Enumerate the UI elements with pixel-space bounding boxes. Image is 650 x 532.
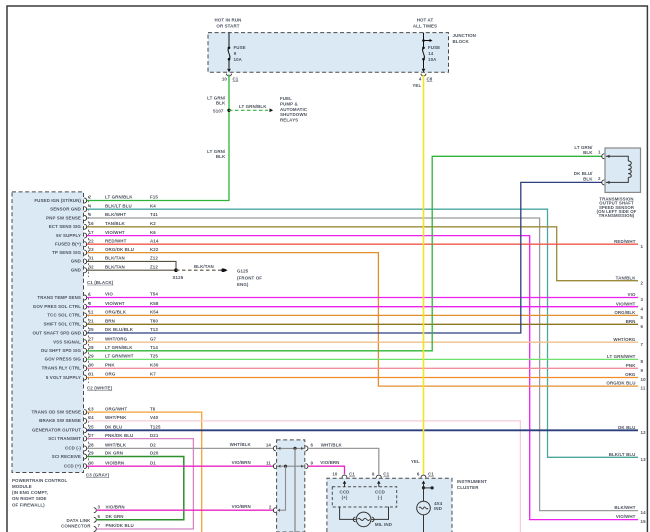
svg-text:10: 10 xyxy=(222,76,228,81)
svg-text:32: 32 xyxy=(89,264,95,269)
svg-text:13: 13 xyxy=(641,457,647,462)
svg-text:BLK/TAN: BLK/TAN xyxy=(194,264,214,269)
svg-text:10: 10 xyxy=(332,472,338,477)
svg-text:PNK/DK BLU: PNK/DK BLU xyxy=(106,523,134,528)
svg-text:BLK/TAN: BLK/TAN xyxy=(105,264,125,269)
svg-text:VIO/WHT: VIO/WHT xyxy=(616,301,636,306)
svg-text:ORG/BLK: ORG/BLK xyxy=(614,310,636,315)
svg-text:SHIFT SOL CTRL: SHIFT SOL CTRL xyxy=(43,322,81,327)
svg-text:25: 25 xyxy=(89,425,95,430)
svg-text:WHT/ORG: WHT/ORG xyxy=(105,336,128,341)
svg-text:14: 14 xyxy=(428,51,434,56)
svg-text:BRN: BRN xyxy=(105,319,115,324)
svg-text:SCI RECEIVE: SCI RECEIVE xyxy=(52,454,81,459)
svg-text:C1: C1 xyxy=(349,472,355,477)
svg-text:VIO/WHT: VIO/WHT xyxy=(105,230,125,235)
svg-text:9: 9 xyxy=(372,472,375,477)
svg-text:BLK/LT BLU: BLK/LT BLU xyxy=(609,452,636,457)
svg-text:PUMP &: PUMP & xyxy=(280,101,298,106)
svg-text:ECT SENS SIG: ECT SENS SIG xyxy=(49,224,82,229)
svg-text:G7: G7 xyxy=(150,336,157,341)
svg-text:6: 6 xyxy=(417,472,420,477)
svg-text:K2: K2 xyxy=(150,221,156,226)
svg-text:BLK/WHT: BLK/WHT xyxy=(614,505,635,510)
svg-text:MODULE: MODULE xyxy=(12,484,32,489)
svg-text:2: 2 xyxy=(641,280,644,285)
svg-text:T25: T25 xyxy=(150,354,158,359)
svg-text:24: 24 xyxy=(89,415,95,420)
svg-text:31: 31 xyxy=(89,256,95,261)
svg-text:6: 6 xyxy=(641,324,644,329)
svg-text:A14: A14 xyxy=(150,238,159,243)
svg-text:6: 6 xyxy=(311,443,314,448)
svg-text:WHT/BLK: WHT/BLK xyxy=(321,443,343,448)
svg-text:DK BLU: DK BLU xyxy=(105,425,122,430)
svg-text:BLK/TAN: BLK/TAN xyxy=(105,256,125,261)
svg-text:PNP SW SENSE: PNP SW SENSE xyxy=(46,215,81,220)
svg-text:(-): (-) xyxy=(378,495,383,500)
svg-text:D2: D2 xyxy=(150,443,156,448)
svg-text:T54: T54 xyxy=(150,292,158,297)
svg-text:FUSED B(+): FUSED B(+) xyxy=(55,242,81,247)
svg-text:TRANS TEMP SENS: TRANS TEMP SENS xyxy=(37,295,81,300)
svg-text:RELAYS: RELAYS xyxy=(280,118,298,123)
svg-text:C1: C1 xyxy=(428,472,434,477)
svg-text:K58: K58 xyxy=(150,301,159,306)
svg-text:21: 21 xyxy=(89,319,95,324)
svg-text:Z12: Z12 xyxy=(150,256,158,261)
svg-text:G125: G125 xyxy=(237,269,249,274)
svg-text:K6: K6 xyxy=(150,230,156,235)
svg-text:OR START: OR START xyxy=(216,23,239,28)
svg-text:ALL TIMES: ALL TIMES xyxy=(413,23,437,28)
svg-text:SCI TRANSMIT: SCI TRANSMIT xyxy=(48,436,81,441)
svg-text:25: 25 xyxy=(89,327,95,332)
svg-text:S107: S107 xyxy=(213,109,224,114)
svg-text:14: 14 xyxy=(266,443,272,448)
svg-text:BLK: BLK xyxy=(583,150,593,155)
svg-text:CLUSTER: CLUSTER xyxy=(457,485,479,490)
svg-text:ORG/DK BLU: ORG/DK BLU xyxy=(105,247,134,252)
svg-text:VIO/BRN: VIO/BRN xyxy=(105,460,124,465)
svg-text:VIO/BRN: VIO/BRN xyxy=(232,504,251,509)
svg-text:T13: T13 xyxy=(150,327,158,332)
svg-text:FUSE: FUSE xyxy=(234,45,246,50)
svg-text:11: 11 xyxy=(641,386,646,391)
svg-text:VIO: VIO xyxy=(628,292,636,297)
svg-text:GOV PRES SOL CTRL: GOV PRES SOL CTRL xyxy=(33,304,81,309)
svg-text:GND: GND xyxy=(71,268,82,273)
svg-text:K22: K22 xyxy=(150,247,159,252)
svg-text:SHUTDOWN: SHUTDOWN xyxy=(280,112,307,117)
svg-text:C3 (GRAY): C3 (GRAY) xyxy=(86,472,110,477)
svg-text:BLK: BLK xyxy=(216,154,226,159)
svg-text:2: 2 xyxy=(598,176,601,181)
svg-text:TCC SOL CTRL: TCC SOL CTRL xyxy=(47,313,81,318)
svg-text:HOT AT: HOT AT xyxy=(417,18,434,23)
svg-text:3: 3 xyxy=(98,504,101,509)
svg-text:T41: T41 xyxy=(150,212,158,217)
svg-text:IND: IND xyxy=(434,506,443,511)
svg-text:T60: T60 xyxy=(150,319,158,324)
svg-text:7: 7 xyxy=(641,342,644,347)
svg-text:27: 27 xyxy=(89,336,95,341)
svg-text:VIO/BRN: VIO/BRN xyxy=(320,460,339,465)
svg-text:VIO/BRN: VIO/BRN xyxy=(232,460,251,465)
svg-text:ON RIGHT SIDE: ON RIGHT SIDE xyxy=(12,496,47,501)
svg-text:ORG/BLK: ORG/BLK xyxy=(105,310,127,315)
svg-text:BLK: BLK xyxy=(216,100,226,105)
svg-text:PNK/DK BLU: PNK/DK BLU xyxy=(105,433,133,438)
svg-text:YEL: YEL xyxy=(411,459,420,464)
svg-text:3: 3 xyxy=(641,297,644,302)
svg-text:GND: GND xyxy=(71,259,82,264)
svg-text:ORG/DK BLU: ORG/DK BLU xyxy=(606,381,635,386)
svg-text:C1: C1 xyxy=(233,76,239,81)
svg-text:9: 9 xyxy=(234,51,237,56)
svg-text:POWERTRAIN CONTROL: POWERTRAIN CONTROL xyxy=(12,478,67,483)
svg-text:29: 29 xyxy=(89,354,95,359)
svg-text:16: 16 xyxy=(89,221,95,226)
svg-text:ORG/WHT: ORG/WHT xyxy=(105,406,127,411)
svg-text:LT GRN/BLK: LT GRN/BLK xyxy=(105,345,133,350)
svg-text:12: 12 xyxy=(641,430,647,435)
svg-text:OUT SHAFT SPD GND: OUT SHAFT SPD GND xyxy=(32,330,81,335)
svg-text:CCD (+): CCD (+) xyxy=(64,464,82,469)
svg-text:(+): (+) xyxy=(342,495,348,500)
svg-text:V40: V40 xyxy=(150,415,159,420)
svg-text:WHT/ORG: WHT/ORG xyxy=(613,337,636,342)
svg-text:D20: D20 xyxy=(150,451,159,456)
svg-text:2: 2 xyxy=(269,505,272,510)
svg-text:5 VOLT SUPPLY: 5 VOLT SUPPLY xyxy=(46,375,81,380)
svg-text:FUEL: FUEL xyxy=(280,96,292,101)
svg-text:LT GRN/WHT: LT GRN/WHT xyxy=(105,354,134,359)
svg-text:TRANSMISSION): TRANSMISSION) xyxy=(599,213,635,218)
svg-text:(IN ENG COMPT,: (IN ENG COMPT, xyxy=(12,490,48,495)
svg-text:D1: D1 xyxy=(150,460,156,465)
svg-text:15: 15 xyxy=(641,519,647,524)
svg-text:BRAKE SW SENSE: BRAKE SW SENSE xyxy=(39,418,81,423)
svg-text:F15: F15 xyxy=(150,195,158,200)
svg-text:11: 11 xyxy=(89,310,94,315)
svg-text:ORG: ORG xyxy=(625,372,636,377)
svg-text:FUSED IGN (ST/RUN): FUSED IGN (ST/RUN) xyxy=(34,198,81,203)
svg-text:23: 23 xyxy=(89,247,95,252)
svg-text:7: 7 xyxy=(98,523,101,528)
svg-text:C2 (WHITE): C2 (WHITE) xyxy=(87,385,113,390)
svg-text:C1 (BLACK): C1 (BLACK) xyxy=(87,280,114,285)
svg-text:TAN/BLK: TAN/BLK xyxy=(616,275,637,280)
svg-text:HOT IN RUN: HOT IN RUN xyxy=(215,18,242,23)
svg-text:DK BLU: DK BLU xyxy=(618,425,635,430)
svg-text:28: 28 xyxy=(89,345,95,350)
svg-text:RED/WHT: RED/WHT xyxy=(614,239,636,244)
svg-text:DK GRN: DK GRN xyxy=(106,514,124,519)
svg-text:30: 30 xyxy=(89,363,95,368)
svg-text:VIO: VIO xyxy=(105,292,113,297)
svg-text:6: 6 xyxy=(98,514,101,519)
svg-text:BLK: BLK xyxy=(583,176,593,181)
svg-text:CONNECTOR: CONNECTOR xyxy=(61,524,91,529)
svg-text:JUNCTION: JUNCTION xyxy=(453,33,476,38)
svg-text:Z12: Z12 xyxy=(150,264,158,269)
svg-text:FUSE: FUSE xyxy=(428,45,440,50)
svg-text:D21: D21 xyxy=(150,433,159,438)
svg-text:S125: S125 xyxy=(173,275,184,280)
svg-text:10A: 10A xyxy=(234,57,243,62)
svg-text:AUTOMATIC: AUTOMATIC xyxy=(280,107,308,112)
svg-text:10A: 10A xyxy=(428,57,437,62)
svg-text:5: 5 xyxy=(641,315,644,320)
svg-text:VIO/WHT: VIO/WHT xyxy=(616,514,636,519)
svg-text:4: 4 xyxy=(419,76,422,81)
svg-text:13: 13 xyxy=(89,406,95,411)
svg-text:8: 8 xyxy=(641,359,644,364)
svg-text:BLK/WHT: BLK/WHT xyxy=(105,212,126,217)
svg-text:WHT/BLK: WHT/BLK xyxy=(105,443,127,448)
svg-text:27: 27 xyxy=(89,433,95,438)
svg-text:T14: T14 xyxy=(150,345,158,350)
svg-text:28: 28 xyxy=(89,443,95,448)
svg-text:SENSOR GND: SENSOR GND xyxy=(50,207,82,212)
svg-text:1: 1 xyxy=(641,244,644,249)
svg-text:WHT/BLK: WHT/BLK xyxy=(230,442,252,447)
svg-text:BRN: BRN xyxy=(626,319,636,324)
svg-text:INSTRUMENT: INSTRUMENT xyxy=(457,479,487,484)
svg-text:VIO/BRN: VIO/BRN xyxy=(106,504,125,509)
svg-text:22: 22 xyxy=(89,238,95,243)
svg-text:9: 9 xyxy=(641,368,644,373)
svg-text:14: 14 xyxy=(641,510,647,515)
svg-text:MIL IND: MIL IND xyxy=(375,522,393,527)
svg-text:K54: K54 xyxy=(150,310,159,315)
svg-text:K7: K7 xyxy=(150,372,156,377)
svg-text:LT GRN/BLK: LT GRN/BLK xyxy=(239,104,267,109)
svg-text:DATA LINK: DATA LINK xyxy=(67,518,92,523)
svg-text:C8: C8 xyxy=(427,76,433,81)
svg-text:K30: K30 xyxy=(150,363,159,368)
svg-text:ENG): ENG) xyxy=(237,282,249,287)
svg-text:PNK: PNK xyxy=(626,363,636,368)
svg-text:GOV PRESS SIG: GOV PRESS SIG xyxy=(45,357,82,362)
svg-text:T125: T125 xyxy=(150,425,161,430)
svg-text:9: 9 xyxy=(311,460,314,465)
svg-text:CCD (-): CCD (-) xyxy=(65,446,81,451)
svg-text:LT GRN/BLK: LT GRN/BLK xyxy=(105,195,133,200)
svg-text:TP SENS SIG: TP SENS SIG xyxy=(52,250,81,255)
svg-text:4: 4 xyxy=(641,306,644,311)
svg-text:T6: T6 xyxy=(150,406,156,411)
svg-text:RED/WHT: RED/WHT xyxy=(105,238,127,243)
svg-text:K4: K4 xyxy=(150,203,156,208)
svg-text:BLOCK: BLOCK xyxy=(453,39,470,44)
svg-text:YEL: YEL xyxy=(412,83,421,88)
svg-text:1: 1 xyxy=(598,150,601,155)
svg-text:GENERATOR OUTPUT: GENERATOR OUTPUT xyxy=(32,428,81,433)
svg-text:C1: C1 xyxy=(383,472,389,477)
svg-text:TRANS OD SW SENSE: TRANS OD SW SENSE xyxy=(31,409,81,414)
svg-text:VIO/WHT: VIO/WHT xyxy=(105,301,125,306)
svg-text:DK BLU/BLK: DK BLU/BLK xyxy=(105,327,134,332)
svg-text:PNK: PNK xyxy=(105,363,115,368)
svg-text:29: 29 xyxy=(89,451,95,456)
svg-text:10: 10 xyxy=(641,377,647,382)
svg-text:WHT/PNK: WHT/PNK xyxy=(105,415,127,420)
svg-text:BLK/LT BLU: BLK/LT BLU xyxy=(105,203,132,208)
svg-text:30: 30 xyxy=(89,460,95,465)
svg-text:TRANS RLY CTRL: TRANS RLY CTRL xyxy=(42,366,82,371)
svg-text:17: 17 xyxy=(89,230,95,235)
svg-text:31: 31 xyxy=(89,372,95,377)
svg-text:11: 11 xyxy=(266,460,271,465)
svg-text:(FRONT OF: (FRONT OF xyxy=(237,275,262,280)
svg-text:ORG: ORG xyxy=(105,372,116,377)
svg-text:5V SUPPLY: 5V SUPPLY xyxy=(56,233,81,238)
svg-text:TAN/BLK: TAN/BLK xyxy=(105,221,126,226)
svg-text:DK GRN: DK GRN xyxy=(105,451,123,456)
svg-text:VSS SIGNAL: VSS SIGNAL xyxy=(53,340,81,345)
svg-text:OU SHFT SPD SIG: OU SHFT SPD SIG xyxy=(41,348,82,353)
svg-text:OF FIREWALL): OF FIREWALL) xyxy=(12,502,45,507)
svg-text:LT GRN/WHT: LT GRN/WHT xyxy=(607,354,636,359)
